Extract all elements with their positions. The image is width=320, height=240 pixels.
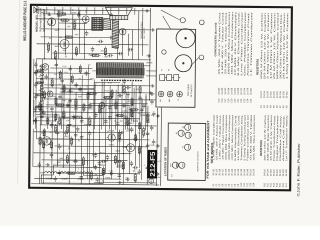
svg-text:.02: .02 xyxy=(78,140,81,142)
wire xyxy=(80,112,83,184)
wire xyxy=(94,7,96,14)
svg-text:FUSE: FUSE xyxy=(150,145,156,147)
junction xyxy=(79,29,80,30)
svg-text:100 M Ohm 1/2 W. Carbon: 100 M Ohm 1/2 W. Carbon xyxy=(263,114,266,161)
capacitor C62 xyxy=(50,122,53,128)
wire xyxy=(34,131,120,134)
svg-text:25M: 25M xyxy=(70,116,74,118)
wire xyxy=(134,8,136,15)
junction xyxy=(65,18,66,19)
svg-text:Osc. Padder Condenser: Osc. Padder Condenser xyxy=(243,11,247,76)
capacitor CA4 xyxy=(108,172,114,175)
resistor R10 xyxy=(66,154,68,164)
resistor R8 xyxy=(39,136,41,146)
capacitor C11 xyxy=(94,113,97,119)
svg-text:.05: .05 xyxy=(38,102,40,104)
capacitor C14 xyxy=(125,86,131,89)
svg-text:456 K.C.: 456 K.C. xyxy=(127,123,135,125)
svg-text:L.S.: L.S. xyxy=(171,173,173,177)
svg-text:1MEG: 1MEG xyxy=(122,111,128,113)
capacitor C52 xyxy=(74,82,77,88)
svg-text:GND.: GND. xyxy=(57,11,63,13)
capacitor CL1 xyxy=(102,169,105,175)
ground G1 xyxy=(155,172,159,176)
filter coil FC2 xyxy=(56,172,74,174)
capacitor C63 xyxy=(56,130,59,136)
capacitor C73 xyxy=(146,143,149,149)
capacitor C13 xyxy=(117,94,123,97)
tube V7 det xyxy=(81,16,89,23)
svg-text:30-110: 30-110 xyxy=(216,168,218,175)
junction xyxy=(123,153,124,154)
resistor R30 xyxy=(134,173,136,183)
svg-text:RESISTORS: RESISTORS xyxy=(255,59,259,75)
svg-text:30-146: 30-146 xyxy=(247,168,249,176)
wire xyxy=(62,117,140,120)
wire xyxy=(56,121,58,167)
svg-text:31-062: 31-062 xyxy=(235,87,237,95)
wire xyxy=(35,10,151,11)
resistor R64 xyxy=(135,133,137,142)
capacitor C28 xyxy=(94,153,97,159)
wire xyxy=(33,93,92,96)
svg-text:8 Mfd. Electrolytic Cond.: 8 Mfd. Electrolytic Cond. xyxy=(234,114,237,161)
resistor R51 xyxy=(43,128,45,137)
svg-text:.05: .05 xyxy=(118,93,121,95)
wire xyxy=(83,23,85,59)
tube V5 80 xyxy=(46,18,55,26)
resistor R44 xyxy=(55,96,57,105)
capacitor C30 xyxy=(152,139,155,145)
svg-text:25M: 25M xyxy=(73,20,77,22)
junction xyxy=(149,59,150,60)
svg-text:1MEG: 1MEG xyxy=(64,136,70,138)
svg-text:Line Filter Condenser: Line Filter Condenser xyxy=(240,11,244,76)
junction xyxy=(135,125,136,126)
svg-text:.05: .05 xyxy=(91,154,94,156)
svg-text:31-074: 31-074 xyxy=(244,87,246,95)
svg-text:SPEAKER FIELD: SPEAKER FIELD xyxy=(140,21,143,39)
svg-text:31-058: 31-058 xyxy=(231,87,233,95)
svg-text:.05: .05 xyxy=(46,52,49,54)
trimmer square S3 xyxy=(174,75,181,81)
ground G9 xyxy=(145,9,149,13)
svg-text:.0005: .0005 xyxy=(47,24,52,26)
svg-text:.005 Mfd. Mica Condenser: .005 Mfd. Mica Condenser xyxy=(253,114,256,161)
capacitor CM2 xyxy=(72,114,75,120)
resistor R7 xyxy=(104,46,106,56)
resistor R62 xyxy=(131,109,133,118)
junction xyxy=(105,105,106,106)
svg-text:Power Transformer Assy.: Power Transformer Assy. xyxy=(273,114,276,161)
tube V3 75 xyxy=(107,134,116,141)
capacitor C40 xyxy=(67,89,73,92)
svg-text:42: 42 xyxy=(161,69,163,71)
capacitor C74 xyxy=(150,99,153,105)
ground G12 xyxy=(148,91,152,95)
svg-text:.0001: .0001 xyxy=(88,108,93,110)
wire xyxy=(110,93,113,180)
svg-text:8-8 Mfd. Electrolytic Cond.: 8-8 Mfd. Electrolytic Cond. xyxy=(237,11,241,76)
svg-text:A.C.: A.C. xyxy=(157,160,161,163)
svg-text:500M: 500M xyxy=(115,151,120,153)
capacitor CE5 xyxy=(34,62,37,68)
svg-text:6A7: 6A7 xyxy=(159,99,162,102)
capacitor C54 xyxy=(66,102,69,108)
wire xyxy=(64,19,66,55)
capacitor C15 xyxy=(142,103,145,109)
svg-text:.25: .25 xyxy=(114,101,117,103)
svg-text:REAR OF CHASSIS: REAR OF CHASSIS xyxy=(196,151,199,172)
svg-text:470,: 470, xyxy=(125,178,130,180)
capacitor C20 xyxy=(128,48,134,51)
resistor R1 xyxy=(54,50,56,60)
capacitor C69 xyxy=(130,127,133,133)
svg-text:.01: .01 xyxy=(86,86,89,88)
knob circle C xyxy=(199,20,204,25)
wire xyxy=(50,19,52,59)
wire xyxy=(142,8,144,15)
AC plug xyxy=(149,178,154,183)
capacitor C18 xyxy=(104,119,107,125)
wire xyxy=(131,82,133,122)
svg-text:31-046: 31-046 xyxy=(222,87,224,95)
callout line xyxy=(161,10,181,20)
ground G7 xyxy=(125,178,129,182)
svg-text:.00025 Mfd. Mica Condenser: .00025 Mfd. Mica Condenser xyxy=(228,114,231,160)
ground GB2 xyxy=(117,181,121,185)
svg-text:42: 42 xyxy=(176,132,178,134)
resistor R45 xyxy=(63,84,65,93)
tube V2 6D6 xyxy=(125,144,134,152)
wire xyxy=(46,7,48,14)
wire xyxy=(55,145,148,148)
svg-text:212-F5: 212-F5 xyxy=(150,151,157,176)
ground G4 xyxy=(150,84,154,88)
svg-text:34-314: 34-314 xyxy=(267,168,269,176)
wire xyxy=(32,129,34,167)
capacitor C2 xyxy=(50,152,53,158)
ground G6 xyxy=(151,28,155,32)
wire xyxy=(61,69,64,129)
svg-text:33-234: 33-234 xyxy=(280,91,282,99)
wire xyxy=(69,65,72,125)
junction xyxy=(72,59,73,60)
resistor RE1 xyxy=(35,94,44,96)
capacitor C26 xyxy=(74,132,77,138)
wire xyxy=(41,159,127,162)
svg-text:.25 Mfd. Paper Condenser: .25 Mfd. Paper Condenser xyxy=(222,114,225,160)
wire xyxy=(55,59,58,121)
wire xyxy=(145,94,147,122)
wire xyxy=(145,96,147,130)
resistor R4 xyxy=(75,46,77,56)
IF transformer T3 xyxy=(104,18,111,29)
wire xyxy=(104,99,107,173)
wire xyxy=(43,13,109,16)
wire xyxy=(37,44,149,45)
tube location box xyxy=(168,123,206,180)
wire xyxy=(117,85,119,122)
schematic border frame xyxy=(29,5,292,190)
capacitor C61 xyxy=(40,114,43,120)
resistor R56 xyxy=(55,112,57,121)
svg-text:Output Transformer: Output Transformer xyxy=(276,114,279,161)
wire xyxy=(87,65,90,121)
svg-text:6A7: 6A7 xyxy=(42,132,47,135)
wire xyxy=(134,86,137,166)
wire xyxy=(120,65,150,67)
wire xyxy=(40,125,157,126)
svg-text:30-101: 30-101 xyxy=(213,168,215,176)
resistor R40 xyxy=(39,102,41,111)
wire xyxy=(156,108,159,186)
capacitor C7 xyxy=(106,155,109,161)
capacitor CM4 xyxy=(80,134,83,140)
wire xyxy=(98,105,101,184)
chassis layout box xyxy=(156,29,196,107)
svg-text:.25: .25 xyxy=(68,148,71,150)
filter coil FC1 xyxy=(40,171,61,173)
wire xyxy=(60,88,94,90)
svg-text:.1 Mfd. 200 V. Tubular Cond.: .1 Mfd. 200 V. Tubular Cond. xyxy=(218,114,221,161)
resistor R26 xyxy=(56,13,66,15)
svg-text:33-238: 33-238 xyxy=(283,91,285,99)
wire xyxy=(35,59,38,129)
svg-text:ANT.: ANT. xyxy=(41,11,46,14)
socket 80 xyxy=(185,124,191,130)
svg-text:SW: SW xyxy=(157,177,160,179)
wire xyxy=(60,91,148,94)
wire xyxy=(126,8,128,15)
junction xyxy=(72,10,73,11)
svg-text:34-338: 34-338 xyxy=(286,169,288,177)
resistor R48 xyxy=(83,103,85,112)
wire xyxy=(39,85,42,184)
capacitor C16 xyxy=(149,92,155,95)
wire xyxy=(68,99,71,184)
capacitor C55 xyxy=(60,78,63,84)
capacitor C59 xyxy=(44,74,47,80)
wire xyxy=(149,8,152,100)
wire xyxy=(50,67,92,69)
capacitor C58 xyxy=(78,86,81,92)
wire xyxy=(43,129,46,184)
svg-text:50M: 50M xyxy=(55,30,59,32)
svg-text:WELLS-GARDNER PAGE 11-1: WELLS-GARDNER PAGE 11-1 xyxy=(22,0,27,41)
svg-text:TOP VIEW: TOP VIEW xyxy=(188,83,190,96)
wire xyxy=(36,106,92,109)
resistor R59 xyxy=(115,115,124,117)
svg-text:Antenna Coil Assy.: Antenna Coil Assy. xyxy=(282,114,285,161)
resistor R41 xyxy=(43,90,45,99)
resistor R60 xyxy=(131,97,133,106)
ground G13 xyxy=(109,36,113,40)
resistor R55 xyxy=(71,136,73,145)
capacitor CA1 xyxy=(101,160,107,163)
tube socket TS2 xyxy=(167,91,173,97)
filter coil FC3 xyxy=(72,172,94,174)
capacitor C57 xyxy=(74,106,77,112)
junction xyxy=(75,160,76,161)
wire xyxy=(102,7,104,14)
wire xyxy=(78,7,80,14)
junction xyxy=(44,58,45,59)
svg-text:6D6: 6D6 xyxy=(122,146,127,149)
dial circle xyxy=(175,55,192,72)
IF transformer T2 xyxy=(92,17,103,30)
wire xyxy=(146,75,158,77)
wire xyxy=(33,152,131,155)
svg-text:2MEG: 2MEG xyxy=(99,152,105,154)
wire xyxy=(40,99,161,100)
svg-text:.1 Mfd. 400 V. Tubular Cond.: .1 Mfd. 400 V. Tubular Cond. xyxy=(221,11,225,76)
svg-text:33-226: 33-226 xyxy=(274,90,276,98)
wire xyxy=(139,92,141,126)
capacitor C5 xyxy=(80,174,83,180)
resistor RE0 xyxy=(35,106,44,108)
wire xyxy=(54,7,56,14)
wire xyxy=(146,62,152,64)
power transformer T4 xyxy=(96,63,144,78)
dial edge circle xyxy=(162,50,166,54)
capacitor CA2 xyxy=(117,160,123,163)
capacitor C35 xyxy=(77,12,80,18)
capacitor C22 xyxy=(68,98,71,104)
capacitor CE3 xyxy=(34,82,37,88)
svg-text:.05: .05 xyxy=(58,144,61,146)
capacitor C68 xyxy=(124,115,127,121)
svg-text:.05: .05 xyxy=(94,94,97,96)
capacitor C19 xyxy=(118,52,124,55)
svg-text:250M: 250M xyxy=(84,124,89,126)
tube socket TS3 xyxy=(177,91,183,97)
wire xyxy=(38,7,40,14)
resistor R12 xyxy=(73,116,83,118)
callout line 3 xyxy=(163,16,171,29)
resistor R46 xyxy=(71,74,73,83)
tube V9 xyxy=(46,91,53,97)
svg-text:75: 75 xyxy=(178,99,180,101)
svg-text:10M: 10M xyxy=(109,171,113,173)
svg-text:.002: .002 xyxy=(67,26,71,28)
svg-text:.01 Mfd. 600 V. Tubular: .01 Mfd. 600 V. Tubular xyxy=(249,114,252,161)
resistor R27 xyxy=(63,110,65,120)
capacitor C37 xyxy=(91,47,94,53)
svg-text:©John F. Rider, Publisher: ©John F. Rider, Publisher xyxy=(297,142,302,196)
resistor R63 xyxy=(139,121,141,130)
bottom rail (land y183) xyxy=(94,181,156,184)
wire xyxy=(40,139,150,140)
wire xyxy=(121,30,123,60)
wire xyxy=(146,106,149,185)
svg-text:Padder Condenser 456 KC: Padder Condenser 456 KC xyxy=(246,114,249,161)
svg-text:.1: .1 xyxy=(143,165,145,167)
dash strip xyxy=(101,79,142,81)
svg-text:.0001 Mfd. Mica Condenser: .0001 Mfd. Mica Condenser xyxy=(225,114,228,160)
wire xyxy=(116,100,119,168)
svg-text:33-230: 33-230 xyxy=(277,91,279,99)
resistor R21 xyxy=(102,166,104,176)
svg-text:4.7: 4.7 xyxy=(46,108,49,110)
junction xyxy=(69,152,70,153)
trimmer square S1 xyxy=(160,74,167,80)
resistor R29 xyxy=(122,161,124,171)
wire xyxy=(137,11,139,60)
capacitor C64 xyxy=(108,115,111,121)
svg-text:.0005: .0005 xyxy=(66,106,71,108)
wire xyxy=(101,81,103,129)
wire xyxy=(109,92,111,130)
model badge 212-F5 xyxy=(147,150,157,179)
wire xyxy=(133,88,135,122)
svg-text:31-054: 31-054 xyxy=(228,87,230,95)
resistor R47 xyxy=(79,65,81,74)
resistor R16 xyxy=(142,127,144,137)
resistor R3 xyxy=(64,36,74,38)
wire xyxy=(44,87,94,89)
resistor R53 xyxy=(50,140,52,149)
resistor R25 xyxy=(74,20,76,30)
svg-text:5Y3: 5Y3 xyxy=(64,72,67,74)
svg-text:.02: .02 xyxy=(128,101,131,103)
junction xyxy=(63,166,64,167)
svg-text:1st I.F. Transformer 456KC: 1st I.F. Transformer 456KC xyxy=(285,114,288,161)
wire xyxy=(110,8,112,15)
capacitor C50 xyxy=(50,106,53,112)
svg-text:450 Ohm Bias Resistor: 450 Ohm Bias Resistor xyxy=(267,114,270,161)
resistor R52 xyxy=(47,116,49,125)
capacitor C12 xyxy=(108,105,111,111)
ground G8 xyxy=(45,163,49,167)
capacitor CT3 xyxy=(78,13,79,16)
svg-text:CONDENSERS (Cont'd): CONDENSERS (Cont'd) xyxy=(214,22,217,56)
wire xyxy=(81,75,84,129)
svg-text:25000,: 25000, xyxy=(133,121,139,123)
resistor R32 xyxy=(99,104,101,114)
tube socket TS1 xyxy=(158,91,164,97)
wire xyxy=(86,99,89,179)
wire xyxy=(160,98,163,186)
trimmer square S2 xyxy=(167,75,174,81)
svg-text:.002 Mfd. Mica Condenser: .002 Mfd. Mica Condenser xyxy=(231,114,234,161)
capacitor C51 xyxy=(58,94,61,100)
svg-text:.05: .05 xyxy=(38,90,40,92)
resistor R17 xyxy=(147,113,149,123)
svg-text:10M: 10M xyxy=(62,50,66,52)
knob circle B xyxy=(199,55,204,60)
paper edge artifacts xyxy=(253,1,320,3)
socket 75 xyxy=(184,144,190,150)
wire xyxy=(141,15,143,56)
svg-text:31-066: 31-066 xyxy=(238,87,240,95)
capacitor CM5 xyxy=(80,118,83,124)
svg-text:10000,: 10000, xyxy=(99,165,106,167)
wire xyxy=(141,98,143,130)
svg-text:.05: .05 xyxy=(114,121,117,123)
svg-text:6A7: 6A7 xyxy=(120,120,123,123)
svg-text:OSC.: OSC. xyxy=(50,78,55,80)
wire xyxy=(32,59,35,125)
svg-text:.002: .002 xyxy=(72,126,76,128)
junction xyxy=(149,99,150,100)
svg-text:6D6: 6D6 xyxy=(177,163,179,166)
capacitor CE0 xyxy=(34,118,37,124)
svg-text:.1: .1 xyxy=(77,168,79,170)
svg-text:.01: .01 xyxy=(142,137,145,139)
resistor R22 xyxy=(114,155,116,165)
junction xyxy=(129,118,130,119)
